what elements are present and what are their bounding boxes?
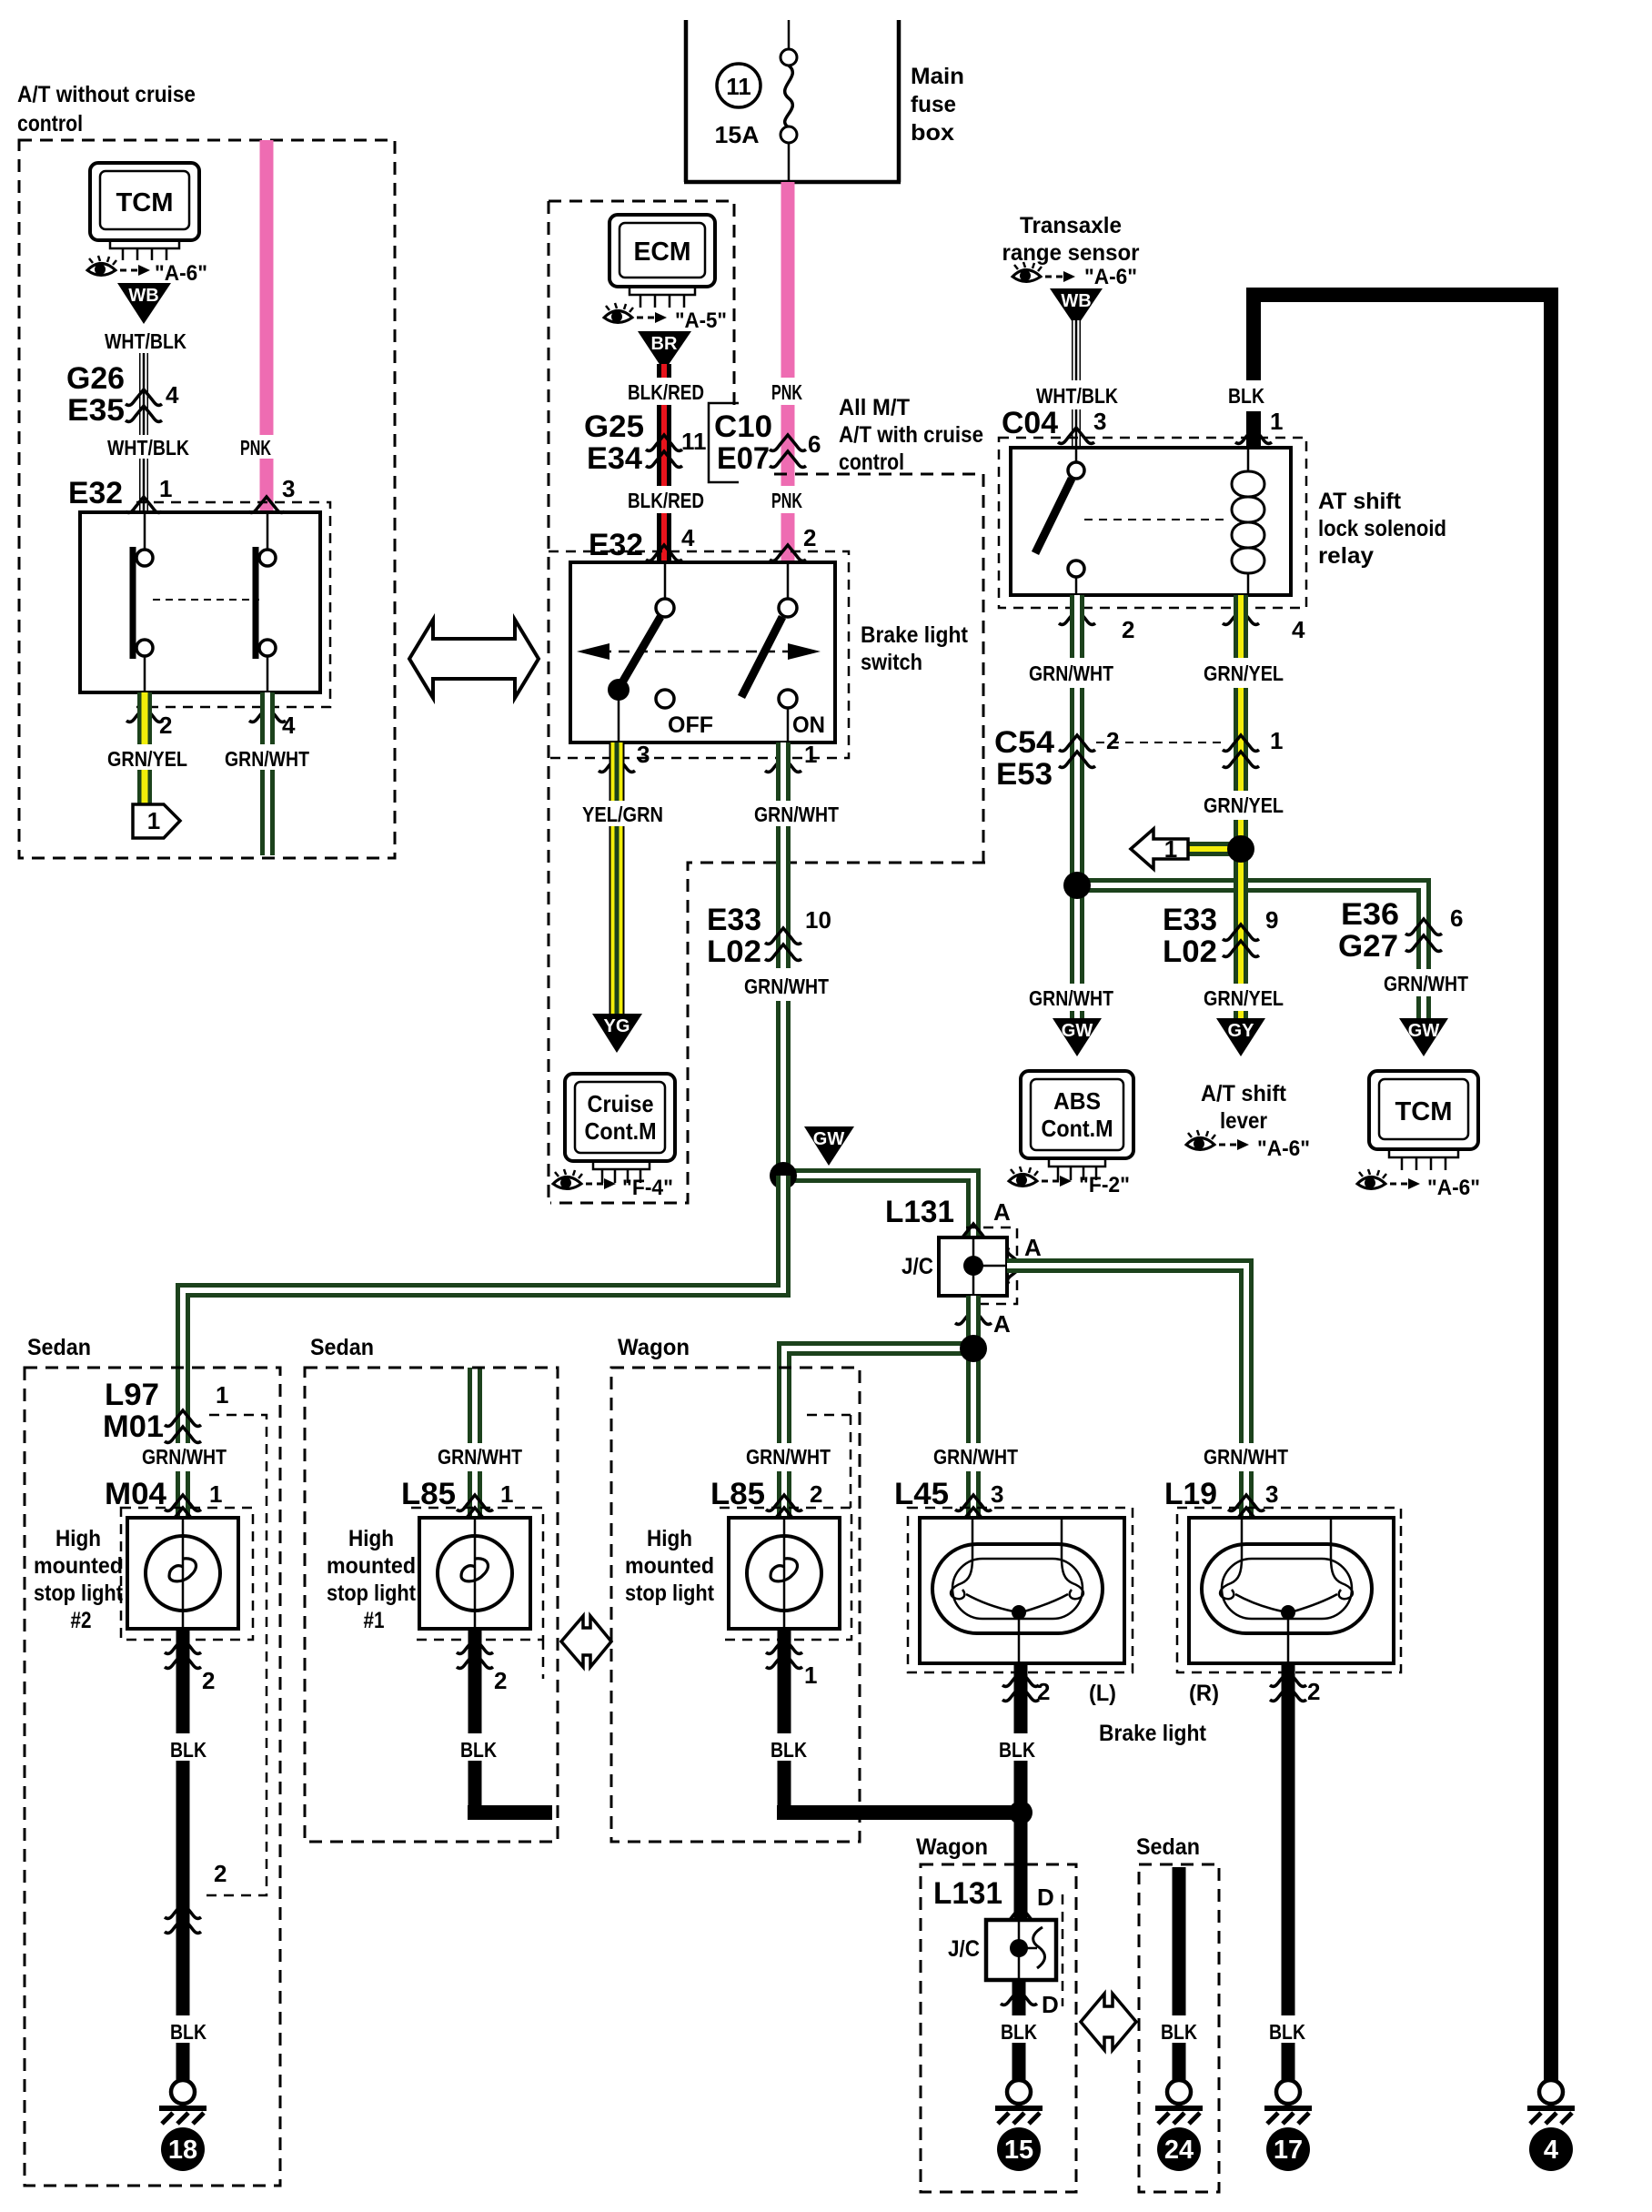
wire GRN/WHT junction to TCM right: [1077, 885, 1424, 1019]
svg-text:Brake light: Brake light: [861, 622, 969, 648]
wire BLK L19 to ground 17: [1282, 1663, 1295, 2080]
ground G24: [1155, 2080, 1203, 2124]
wire BLK/RED ECM to brake switch: [657, 364, 671, 562]
svg-text:lock solenoid: lock solenoid: [1318, 516, 1446, 541]
svg-text:BLK: BLK: [1228, 384, 1264, 408]
svg-text:relay: relay: [1318, 543, 1374, 569]
svg-text:GRN/WHT: GRN/WHT: [225, 747, 309, 771]
J/C junction connector L131 (wagon): [948, 1920, 1056, 1980]
connector L131 pin A (bottom): [955, 1308, 1011, 1338]
svg-text:BLK: BLK: [1269, 2020, 1305, 2044]
arrow tag 1 (to sheet): [133, 804, 180, 838]
svg-text:PNK: PNK: [771, 489, 802, 512]
svg-text:range sensor: range sensor: [1002, 240, 1140, 266]
svg-text:9: 9: [1265, 906, 1278, 934]
svg-text:stop light: stop light: [34, 1581, 124, 1606]
svg-text:E32: E32: [68, 476, 123, 510]
svg-text:ABS: ABS: [1053, 1087, 1101, 1115]
relay coil: [1232, 448, 1264, 595]
wire BLK wagon lamp elbow to junction: [777, 1629, 1028, 1820]
labels (L) (R) Brake light: [1089, 1681, 1219, 1746]
svg-text:10: 10: [805, 906, 831, 934]
svg-text:L85: L85: [710, 1477, 765, 1511]
dashed link between contacts: [153, 599, 259, 601]
svg-text:GW: GW: [1408, 1021, 1440, 1041]
svg-text:2: 2: [1106, 727, 1119, 754]
svg-text:2: 2: [1307, 1678, 1320, 1705]
svg-text:High: High: [647, 1526, 692, 1551]
svg-text:#1: #1: [364, 1608, 385, 1633]
dashed box around sedan1 lamp: [411, 1508, 543, 1679]
connector M04 pin 1: [105, 1477, 222, 1523]
svg-text:1: 1: [804, 741, 817, 768]
svg-text:A/T with cruise: A/T with cruise: [839, 422, 983, 448]
svg-text:GRN/WHT: GRN/WHT: [1029, 986, 1113, 1010]
brake light L45 (L): [920, 1518, 1124, 1663]
svg-text:L97: L97: [105, 1378, 159, 1412]
TCM U5 (right): [1369, 1071, 1478, 1170]
label Main fuse box: [911, 64, 964, 146]
label High mounted stop light #1: [327, 1526, 417, 1633]
svg-text:2: 2: [810, 1480, 822, 1508]
svg-text:A/T without cruise: A/T without cruise: [17, 82, 196, 107]
svg-text:2: 2: [202, 1667, 215, 1694]
big double arrow: [409, 620, 539, 698]
junction GRN/WHT: [1063, 872, 1091, 899]
GY triangle (shift lever): [1216, 1018, 1265, 1056]
svg-text:High: High: [348, 1526, 394, 1551]
svg-text:GRN/WHT: GRN/WHT: [1029, 662, 1113, 685]
connector E33/L02 pin 9: [1163, 903, 1278, 969]
dashed box wagon: [611, 1368, 860, 1842]
svg-text:High: High: [55, 1526, 101, 1551]
svg-text:GRN/WHT: GRN/WHT: [746, 1445, 831, 1469]
connector E32 pins 3,1 below switch: [599, 741, 817, 772]
svg-text:OFF: OFF: [668, 712, 713, 738]
svg-text:GRN/YEL: GRN/YEL: [1204, 662, 1284, 685]
svg-text:D: D: [1042, 1991, 1059, 2018]
wire GRN/WHT to wagon stop light: [784, 1348, 973, 1518]
junction node GRN/WHT: [770, 1162, 797, 1189]
svg-text:A: A: [1024, 1234, 1042, 1261]
svg-text:"A-6": "A-6": [1084, 265, 1137, 289]
svg-text:L45: L45: [894, 1477, 949, 1511]
svg-text:J/C: J/C: [948, 1936, 980, 1962]
TCM U1 (left): [90, 163, 199, 260]
svg-text:Sedan: Sedan: [1136, 1834, 1200, 1860]
dashed box A/T without cruise control: [19, 140, 395, 858]
dashed box wagon J/C: [921, 1864, 1076, 2192]
dashed bracket L131 lower: [1062, 1894, 1064, 2006]
svg-text:Cruise: Cruise: [588, 1090, 654, 1117]
connector pin 2 below L45: [1002, 1671, 1050, 1705]
connector E33/L02 pin 10: [707, 903, 831, 969]
svg-text:GRN/WHT: GRN/WHT: [142, 1445, 227, 1469]
svg-text:Cont.M: Cont.M: [1042, 1115, 1113, 1142]
connector pin 2 below lamp #1: [457, 1638, 507, 1694]
svg-text:BR: BR: [651, 334, 678, 354]
svg-text:L131: L131: [885, 1195, 954, 1229]
dashed box around L19: [1177, 1508, 1401, 1672]
svg-text:L02: L02: [707, 934, 761, 969]
connector pin 2 below L19: [1270, 1671, 1320, 1705]
ground G4 (far right): [1527, 2080, 1575, 2124]
svg-text:TCM: TCM: [1395, 1097, 1453, 1126]
svg-text:"A-6": "A-6": [1427, 1176, 1480, 1200]
dashed box sedan #2: [25, 1368, 280, 2186]
svg-text:mounted: mounted: [327, 1553, 416, 1579]
connector C10/E07 pin 6: [709, 403, 821, 482]
label Transaxle range sensor: [1002, 213, 1140, 266]
wire GRN/WHT relay to ABS: [1070, 595, 1084, 1019]
relay pins 2,4: [1059, 609, 1305, 643]
GW triangle mid: [804, 1126, 854, 1166]
Cruise Cont.M U3: [565, 1074, 675, 1183]
svg-text:Wagon: Wagon: [618, 1335, 690, 1360]
svg-text:"A-6": "A-6": [1257, 1136, 1310, 1161]
svg-text:BLK/RED: BLK/RED: [628, 380, 704, 404]
YG triangle: [592, 1014, 642, 1053]
svg-text:1: 1: [1270, 727, 1283, 754]
svg-text:mounted: mounted: [625, 1553, 714, 1579]
svg-text:E33: E33: [1163, 903, 1217, 937]
svg-text:2: 2: [494, 1667, 507, 1694]
BR triangle (ECM): [638, 331, 691, 371]
dashed bracket L131: [966, 1227, 1017, 1304]
wire GRN/WHT distribution to sedan #2: [183, 1176, 783, 1518]
thick BLK feed wire (top and right side): [1246, 288, 1558, 2080]
svg-text:ECM: ECM: [634, 237, 691, 267]
connector L45 pin 3: [894, 1477, 1003, 1523]
svg-text:A: A: [993, 1198, 1011, 1226]
svg-text:E33: E33: [707, 903, 761, 937]
svg-text:L02: L02: [1163, 934, 1217, 969]
svg-text:E53: E53: [996, 757, 1053, 792]
label All M/T A/T with cruise control: [839, 395, 983, 475]
svg-text:J/C: J/C: [902, 1254, 933, 1279]
small double arrow bottom: [1081, 1994, 1136, 2050]
svg-text:GRN/WHT: GRN/WHT: [933, 1445, 1018, 1469]
svg-text:C04: C04: [1002, 406, 1058, 440]
dashed box sedan #1: [305, 1368, 558, 1842]
dashed box sedan ground: [1139, 1864, 1219, 2192]
wire BLK sedan #2 to ground 18: [176, 1629, 190, 2080]
svg-text:1: 1: [500, 1480, 513, 1508]
wire YEL/GRN to cruise module: [609, 742, 625, 1015]
ground G15: [995, 2080, 1043, 2124]
left contact: [133, 512, 153, 692]
svg-text:L85: L85: [401, 1477, 456, 1511]
svg-text:Brake light: Brake light: [1099, 1721, 1207, 1746]
connector L85 pin 1: [401, 1477, 513, 1523]
eye to A-6 (shift lever): [1186, 1130, 1249, 1150]
ABS Cont.M U4: [1021, 1071, 1133, 1180]
brake light switch box: [570, 562, 835, 742]
svg-text:E34: E34: [587, 441, 642, 476]
svg-text:WHT/BLK: WHT/BLK: [107, 436, 189, 460]
label A/T shift lever: [1201, 1081, 1287, 1134]
high mounted stop light lamp (wagon): [729, 1518, 840, 1629]
svg-text:BLK: BLK: [771, 1738, 807, 1762]
eye to F-4 (cruise): [553, 1169, 616, 1189]
main fuse box outline: [684, 20, 901, 182]
label A/T without cruise control: [17, 82, 196, 136]
wire GRN/WHT J/C to L19: [1007, 1266, 1246, 1518]
WB triangle (transaxle): [1050, 288, 1103, 328]
svg-text:GY: GY: [1228, 1021, 1255, 1041]
svg-text:"F-2": "F-2": [1079, 1173, 1130, 1197]
svg-text:Cont.M: Cont.M: [585, 1117, 657, 1145]
svg-text:Main: Main: [911, 64, 964, 89]
connector L131 pin A (right): [1008, 1234, 1042, 1284]
svg-text:1: 1: [159, 475, 172, 502]
svg-text:WB: WB: [128, 286, 158, 306]
label Brake light switch: [861, 622, 969, 675]
svg-text:All M/T: All M/T: [839, 395, 910, 420]
connector L131 pin A (top): [885, 1195, 1011, 1239]
svg-text:C10: C10: [714, 409, 772, 444]
connector pins 2,4 below switch: [126, 706, 296, 739]
svg-text:2: 2: [214, 1860, 227, 1887]
switch box (A/T shift lock sw): [80, 512, 320, 692]
svg-text:2: 2: [803, 524, 816, 551]
svg-text:18: 18: [168, 2136, 197, 2165]
ECM U2: [609, 215, 715, 308]
dashed box around L45: [908, 1508, 1133, 1672]
svg-text:GW: GW: [813, 1129, 845, 1149]
eye to A-5 (ECM): [604, 303, 667, 323]
svg-text:3: 3: [637, 741, 650, 768]
wire GRN/YEL relay to shift lever: [1234, 595, 1248, 1019]
svg-text:4: 4: [282, 712, 296, 739]
svg-text:GRN/YEL: GRN/YEL: [107, 747, 187, 771]
svg-text:Wagon: Wagon: [916, 1834, 988, 1860]
ground G17: [1264, 2080, 1312, 2124]
svg-text:GRN/WHT: GRN/WHT: [744, 975, 829, 998]
svg-text:switch: switch: [861, 650, 922, 675]
svg-text:15: 15: [1004, 2136, 1033, 2165]
svg-text:AT shift: AT shift: [1318, 489, 1402, 514]
svg-text:1: 1: [216, 1381, 228, 1409]
svg-text:BLK: BLK: [170, 1738, 206, 1762]
junction BLK wagon: [1009, 1801, 1032, 1824]
svg-text:BLK/RED: BLK/RED: [628, 489, 704, 512]
svg-text:GRN/WHT: GRN/WHT: [754, 803, 839, 826]
connector E32 pins 4,2: [589, 524, 816, 562]
svg-text:G26: G26: [66, 361, 125, 396]
svg-text:1: 1: [1270, 408, 1283, 435]
dashed connector sub-box sedan #2: [202, 1415, 267, 1895]
brake light L19 (R): [1189, 1518, 1394, 1663]
eye to A-6 (TCM left): [87, 256, 150, 276]
dashed connector box E32 left: [136, 502, 330, 707]
wire BLK J/C to ground 15: [1012, 1980, 1026, 2080]
connector E32 pins 1,3: [68, 475, 295, 512]
svg-text:Sedan: Sedan: [310, 1335, 374, 1360]
svg-text:(L): (L): [1089, 1681, 1116, 1706]
high mounted stop light #1 lamp: [419, 1518, 530, 1629]
svg-text:1: 1: [804, 1662, 817, 1689]
svg-text:mounted: mounted: [34, 1553, 123, 1579]
small double arrow sedan1/wagon: [561, 1616, 611, 1667]
svg-text:control: control: [17, 111, 83, 136]
wire PNK (left box): [260, 140, 274, 512]
wire GRN/WHT junction to J/C: [783, 1176, 973, 1237]
svg-text:BLK: BLK: [999, 1738, 1035, 1762]
svg-text:E35: E35: [67, 393, 125, 428]
svg-text:2: 2: [159, 712, 172, 739]
svg-text:C54: C54: [994, 725, 1054, 760]
connector pin 1 below wagon lamp: [766, 1638, 817, 1689]
svg-text:3: 3: [1265, 1480, 1278, 1508]
label AT shift lock solenoid relay: [1318, 489, 1446, 569]
relay internal dashed link: [1084, 519, 1226, 520]
svg-text:fuse: fuse: [911, 92, 956, 117]
svg-text:4: 4: [1544, 2136, 1558, 2165]
J/C junction connector L131: [902, 1237, 1007, 1296]
high mounted stop light #2 lamp: [127, 1518, 238, 1629]
connector C54/E53 pins 2,1: [994, 725, 1283, 792]
svg-text:17: 17: [1274, 2136, 1303, 2165]
svg-text:6: 6: [808, 430, 821, 458]
connector L85 pin 2 (wagon): [710, 1477, 822, 1523]
svg-text:BLK: BLK: [1161, 2020, 1197, 2044]
svg-text:24: 24: [1164, 2136, 1194, 2165]
wire BLK sedan to ground 24: [1173, 1867, 1186, 2080]
eye to A-6 (TCM right): [1357, 1169, 1420, 1189]
svg-text:box: box: [911, 120, 954, 146]
svg-text:4: 4: [1292, 616, 1305, 643]
svg-text:E32: E32: [589, 528, 643, 562]
svg-text:WHT/BLK: WHT/BLK: [1036, 384, 1118, 408]
svg-text:4: 4: [681, 524, 695, 551]
dashed connector box relay: [999, 438, 1306, 608]
svg-text:BLK: BLK: [170, 2020, 206, 2044]
svg-text:D: D: [1037, 1884, 1054, 1911]
svg-text:TCM: TCM: [116, 188, 174, 217]
svg-text:BLK: BLK: [1001, 2020, 1037, 2044]
connector pin 2 mid sedan #2: [165, 1860, 227, 1933]
svg-text:stop light: stop light: [625, 1581, 715, 1606]
svg-text:A: A: [993, 1310, 1011, 1338]
fuse 11 15A: [715, 20, 798, 182]
svg-text:BLK: BLK: [460, 1738, 497, 1762]
dashed outline ECM / All M-T box: [549, 201, 985, 1203]
svg-text:6: 6: [1450, 904, 1463, 932]
svg-text:WHT/BLK: WHT/BLK: [105, 329, 186, 353]
svg-text:WB: WB: [1061, 291, 1091, 311]
connector L19 pin 3: [1164, 1477, 1278, 1523]
connector L97/M01 pin 1: [103, 1378, 228, 1444]
label High mounted stop light #2: [34, 1526, 124, 1633]
wire BLK sedan #1 elbow: [468, 1629, 552, 1820]
wire GRN/WHT sedan #1 stub: [468, 1368, 482, 1518]
wire GRN/YEL to arrow 1: [137, 692, 152, 804]
svg-text:stop light: stop light: [327, 1581, 417, 1606]
svg-text:ON: ON: [792, 712, 825, 738]
svg-text:L19: L19: [1164, 1477, 1217, 1511]
svg-text:1: 1: [209, 1480, 222, 1508]
svg-text:control: control: [839, 449, 904, 475]
connector L131 pin D (top): [933, 1876, 1054, 1922]
AT shift lock solenoid relay box: [1011, 448, 1291, 595]
wire PNK fuse to brake switch: [781, 182, 795, 562]
junction node below J/C: [960, 1335, 987, 1362]
svg-text:3: 3: [991, 1480, 1003, 1508]
connector C04 pins 3,1: [1002, 406, 1283, 443]
svg-text:M01: M01: [103, 1409, 164, 1444]
eye to F-2 (ABS): [1009, 1167, 1072, 1187]
label High mounted stop light (wagon): [625, 1526, 715, 1606]
svg-text:3: 3: [1093, 408, 1106, 435]
svg-text:PNK: PNK: [240, 436, 271, 460]
svg-text:"F-4": "F-4": [622, 1176, 673, 1200]
wire GRN/WHT switch to junction: [776, 742, 791, 1176]
connector G25/E34 pin 11: [584, 409, 707, 476]
svg-text:GRN/WHT: GRN/WHT: [438, 1445, 522, 1469]
svg-text:2: 2: [1122, 616, 1134, 643]
wire WHT/BLK TCM to E32 pin1: [139, 353, 148, 512]
svg-text:GRN/WHT: GRN/WHT: [1204, 1445, 1288, 1469]
ground G18: [159, 2080, 206, 2124]
dashed connector box brake light switch: [549, 551, 849, 758]
svg-text:(R): (R): [1189, 1681, 1219, 1706]
svg-text:2: 2: [1037, 1678, 1050, 1705]
brake switch pole 2: [741, 562, 825, 742]
wire GRN/WHT to box edge: [260, 692, 275, 855]
svg-text:A/T shift: A/T shift: [1201, 1081, 1287, 1106]
dashed box around wagon lamp: [720, 1415, 851, 1640]
svg-text:1: 1: [147, 807, 160, 834]
svg-text:"A-6": "A-6": [155, 261, 207, 286]
relay switch contact: [1035, 448, 1084, 595]
brake switch pole 1: [608, 562, 713, 742]
WB triangle (TCM left): [117, 283, 171, 324]
svg-text:4: 4: [166, 381, 179, 409]
svg-text:G27: G27: [1338, 929, 1398, 964]
connector L131 pin D (bottom): [1001, 1989, 1059, 2018]
arrow tag 1 (from sheet): [1131, 829, 1241, 869]
svg-text:YEL/GRN: YEL/GRN: [582, 803, 663, 826]
GW triangle (TCM right): [1399, 1018, 1448, 1056]
connector E36/G27 pin 6: [1338, 897, 1463, 964]
svg-text:M04: M04: [105, 1477, 166, 1511]
svg-text:YG: YG: [604, 1016, 630, 1036]
svg-text:"A-5": "A-5": [675, 308, 727, 333]
svg-text:E36: E36: [1341, 897, 1399, 932]
connector G26/E35 pin 4: [66, 361, 179, 428]
svg-text:1: 1: [1164, 835, 1177, 863]
junction GRN/YEL: [1227, 835, 1254, 863]
svg-text:3: 3: [282, 475, 295, 502]
svg-text:L131: L131: [933, 1876, 1002, 1911]
svg-text:Sedan: Sedan: [27, 1335, 91, 1360]
svg-text:11: 11: [681, 428, 707, 455]
wire BLK L45 to J/C: [1014, 1663, 1028, 1920]
svg-text:GW: GW: [1062, 1021, 1093, 1041]
eye to A-6 (transaxle): [1012, 262, 1075, 282]
svg-text:11: 11: [726, 73, 751, 100]
svg-text:PNK: PNK: [771, 380, 802, 404]
right contact: [256, 512, 276, 692]
svg-text:GRN/YEL: GRN/YEL: [1204, 793, 1284, 817]
svg-text:E07: E07: [717, 441, 770, 476]
svg-text:#2: #2: [71, 1608, 92, 1633]
wire GRN/WHT J/C down to L45: [966, 1296, 981, 1518]
connector pin 2 below lamp #2: [165, 1638, 215, 1694]
dashed travel arrow: [577, 643, 821, 660]
GW triangle (ABS): [1053, 1018, 1102, 1056]
